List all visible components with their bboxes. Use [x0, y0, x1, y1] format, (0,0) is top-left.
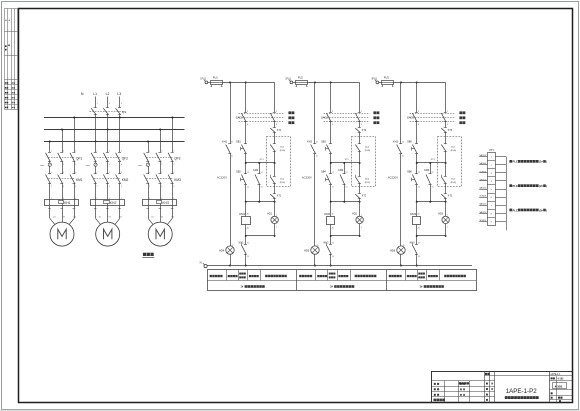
contact KH1 NC label [239, 241, 249, 258]
selector SAC1 contact a [241, 113, 247, 122]
fuse FU1 label [213, 76, 219, 80]
wire rail C3 seg2 [445, 122, 447, 128]
contact KM3 aux branch wire bottom [430, 185, 432, 202]
SAC2 position caption auto [373, 121, 379, 124]
wire rail A2 upper [314, 82, 316, 143]
control supply terminal 3 [375, 80, 379, 84]
wire feeder 3 pole 3 KM-motor [171, 183, 175, 218]
breaker QF2 label [122, 156, 128, 160]
svg-text:4-102: 4-102 [558, 378, 565, 381]
breaker QF3 label [174, 156, 180, 160]
contact KH1 aux (fault) [226, 144, 232, 154]
svg-text:2ACD4: 2ACD4 [479, 186, 487, 189]
neutral terminal N [203, 263, 207, 268]
junction line 3-3 [416, 235, 447, 237]
wire rail B3 seg2 [416, 122, 418, 144]
breaker QF2 pole 3 [116, 150, 122, 166]
svg-text:2FU1: 2FU1 [285, 78, 292, 81]
junction 3 top-B [416, 81, 418, 83]
wire rail A3 lower [400, 154, 402, 246]
wire rail C1 seg5 [274, 184, 276, 194]
terminal 7 number [491, 205, 493, 207]
selector SAC3 contact a [412, 113, 418, 122]
node N label [81, 92, 84, 96]
selector SAC2 contact a [326, 113, 332, 122]
svg-text:A1: A1 [332, 213, 334, 216]
svg-text:1: 1 [97, 172, 98, 174]
junction 2 top-A [314, 81, 316, 83]
SAC3 position caption auto [459, 121, 465, 124]
terminal 9 wire label [479, 220, 487, 222]
svg-text:5: 5 [75, 150, 76, 152]
PLC annotation group 2 [509, 184, 547, 188]
wire supply stub L2 [108, 97, 110, 108]
svg-text:A2: A2 [332, 226, 334, 229]
svg-text:14: 14 [418, 187, 420, 189]
contactor KM2 main pole 2 [103, 172, 109, 188]
wire control 3 top rail [394, 82, 446, 84]
svg-text:6: 6 [121, 164, 122, 166]
QF2 trip release [94, 163, 97, 166]
terminal 5 number [491, 189, 493, 191]
terminal 3 outgoing wire [495, 172, 506, 174]
svg-text:XT1: XT1 [489, 148, 494, 152]
svg-text:5: 5 [121, 172, 122, 174]
contactor KM2 main pole 3 [116, 172, 122, 188]
wire rail C3 seg6 [445, 199, 447, 217]
thermal relay KH2 body [91, 200, 125, 206]
junction line 2-2 [330, 201, 361, 203]
wire feeder 1 pole 1 KM-motor [48, 183, 52, 218]
junction B3-N [416, 265, 418, 267]
wire rail C2 seg6 [359, 199, 361, 217]
table group 1 caption [241, 285, 265, 288]
svg-text:KM2: KM2 [122, 178, 129, 182]
svg-text:(DLX): (DLX) [451, 182, 457, 184]
table group 3 caption [420, 285, 444, 288]
wire feeder 2 pole 3 QF-KM [119, 162, 121, 174]
lamp HD3 (run) [442, 216, 449, 223]
junction 1 top-B [245, 81, 247, 83]
svg-text:KM3: KM3 [410, 212, 416, 216]
button SB4 label [321, 171, 334, 189]
svg-text:2: 2 [149, 186, 150, 188]
node KT2 wire label [345, 159, 350, 161]
contact KM3 aux (seal-in) [426, 174, 432, 185]
node L2 label [106, 92, 110, 96]
float switch enclosure (dashed) [352, 137, 376, 187]
svg-text:3: 3 [63, 150, 64, 152]
svg-text:95: 95 [332, 242, 334, 244]
QF1 linkage (dashed) [48, 157, 75, 159]
svg-text:43: 43 [231, 245, 233, 247]
svg-text:6: 6 [173, 186, 174, 188]
float switch enclosure (dashed) [438, 137, 462, 187]
contact KM2 aux branch wire bottom [344, 185, 346, 202]
contactor KM2 label [122, 178, 129, 182]
wire feeder 1 pole 1 drop [49, 141, 51, 152]
button SB5 label [407, 140, 412, 143]
terminal 9 wire stub [479, 221, 487, 223]
terminal 3 number [491, 173, 493, 175]
wire feeder 1 pole 2 KM-motor [60, 183, 64, 218]
fuse FU3 label [384, 76, 390, 80]
svg-text:SB2: SB2 [236, 171, 241, 174]
contact KH3 aux (fault) [397, 144, 403, 154]
wire rail A3 to N [400, 254, 402, 265]
svg-text:): ) [546, 161, 547, 164]
lamp HD2 (run) [356, 216, 363, 223]
svg-text:3ACD4: 3ACD4 [479, 211, 487, 214]
wire feeder 1 converge left [50, 218, 55, 224]
svg-text:(DLS): (DLS) [365, 150, 371, 152]
junction feeder 1 pole 3 [73, 117, 75, 119]
wire rail B2 seg6 [330, 202, 332, 217]
voltage label AC220V [302, 176, 312, 180]
wire rail B1 seg2 [245, 122, 247, 144]
wire feeder 2 pole 2 QF-KM [107, 162, 109, 174]
svg-text:2: 2 [447, 227, 448, 229]
contact KT3 NO (time relay) [441, 128, 447, 133]
svg-text:): ) [546, 209, 547, 212]
contact KT2 NO label [362, 129, 367, 132]
terminal 1 outgoing wire [495, 156, 506, 158]
svg-text:PLC: PLC [513, 184, 518, 188]
table group 3 header cells [389, 273, 466, 279]
svg-text:KM2: KM2 [324, 212, 330, 216]
wire rail C1 seg4 [274, 151, 276, 176]
QF3 trip label [138, 165, 143, 167]
terminal 3 label [371, 78, 378, 81]
contact KT1 NO (time relay) [270, 128, 276, 133]
motor 3 terminal labels U V W [151, 216, 175, 218]
wire feeder 1 pole 2 QF-KM [62, 162, 64, 174]
wire feeder 3 pole 2 KM-motor [159, 183, 163, 218]
junction line 2-1 [330, 162, 361, 164]
SAC1 position caption stop [288, 116, 294, 119]
selector SAC2 contact b [355, 113, 361, 122]
QF1 trip label [40, 165, 45, 167]
wire rail B1 seg7 [245, 225, 247, 245]
svg-text:1: 1 [149, 172, 150, 174]
wire rail A1 lower [230, 154, 232, 246]
wire rail B1 seg6 [245, 202, 247, 217]
lamp HD5 label [304, 245, 318, 252]
svg-text:1ACD2: 1ACD2 [479, 154, 487, 157]
svg-text:KT1: KT1 [277, 196, 282, 198]
float switch DL1 label [280, 146, 286, 152]
float switch DL2 contact [355, 175, 361, 184]
fuse FU3 [379, 81, 394, 87]
svg-text:4: 4 [109, 164, 110, 166]
SAC3 pin labels a [418, 111, 420, 126]
svg-text:4: 4 [161, 164, 162, 166]
wire feeder 3 pole 1 drop [148, 141, 150, 152]
svg-text:3ACD2: 3ACD2 [479, 203, 487, 206]
contact KM1 aux branch wire top [259, 163, 261, 174]
wire feeder 3 pole 1 KM-motor [146, 183, 150, 218]
wire rail C2 seg5 [359, 184, 361, 194]
drawing number text [506, 388, 538, 395]
contact KH2 aux (fault) [311, 144, 317, 154]
contact KM3 aux branch wire top [430, 163, 432, 174]
motor M3 [148, 222, 172, 246]
wire rail B3 seg3 [416, 154, 418, 163]
svg-text:41: 41 [316, 156, 318, 158]
wire feeder 3 pole 3 QF-KM [172, 162, 174, 174]
QF2 linkage (dashed) [94, 157, 121, 159]
svg-text:A2: A2 [418, 226, 420, 229]
svg-text:KT3: KT3 [448, 196, 453, 198]
contact KH2 NC (overload) [326, 243, 332, 254]
contact KH2 NC label [324, 241, 334, 258]
KM3 linkage (dashed) [147, 178, 174, 180]
svg-text:1FU1: 1FU1 [200, 78, 207, 81]
title block signature cells [434, 373, 494, 401]
lamp HD6 label [390, 245, 404, 252]
svg-text:4: 4 [63, 164, 64, 166]
contactor KM3 main pole 2 [156, 172, 162, 188]
junction A3-N [400, 265, 402, 267]
button SB1 label [236, 140, 241, 143]
svg-text:6: 6 [121, 186, 122, 188]
svg-text:3: 3 [63, 172, 64, 174]
lamp HD4 label [219, 245, 233, 252]
QF3 linkage (dashed) [147, 157, 174, 159]
wire rail C1 seg1 [274, 82, 276, 112]
wire rail B2 to N [330, 254, 332, 265]
svg-text:N: N [81, 92, 84, 96]
control supply terminal 2 [289, 80, 293, 84]
svg-text:1: 1 [276, 214, 277, 216]
wire rail B3 seg5 [416, 185, 418, 202]
lamp HD6 (fault) [397, 246, 405, 254]
svg-text:95: 95 [247, 242, 249, 244]
svg-text:1: 1 [447, 214, 448, 216]
svg-text:95: 95 [418, 242, 420, 244]
junction 1 top-A [229, 81, 231, 83]
voltage label AC220V [388, 176, 398, 180]
QS linkage (dashed) [90, 111, 124, 113]
terminal block outgoing bus [506, 157, 508, 231]
wire rail A1 to N [230, 254, 232, 265]
svg-text:5: 5 [121, 103, 122, 105]
wire rail C2 seg3 [359, 132, 361, 144]
SAC1 position caption manual [288, 111, 294, 114]
svg-text:4: 4 [161, 186, 162, 188]
breaker QF3 pole 1 [144, 150, 150, 166]
coil KM3 [413, 217, 421, 225]
button SB4 start (NO) [326, 174, 332, 185]
wire rail B2 seg7 [330, 225, 332, 245]
wire L2 drop to middle bus [107, 114, 109, 129]
wire feeder 1 pole 3 KM-motor [73, 183, 77, 218]
wire rail A2 lower [314, 154, 316, 246]
wire supply stub L1 [96, 97, 98, 108]
selector SAC2 label [321, 116, 328, 120]
svg-text:5: 5 [173, 150, 174, 152]
float switch DL1 contact [441, 144, 447, 152]
wire feeder 1 pole 2 drop [62, 130, 64, 153]
thermal relay KH1 label [64, 201, 71, 205]
svg-text:45: 45 [316, 142, 318, 144]
svg-text:54: 54 [432, 187, 434, 189]
PLC annotation group 1 [509, 160, 547, 164]
selector SAC3 label [407, 116, 414, 120]
svg-text:KH1: KH1 [239, 241, 244, 244]
svg-text:(1#: (1# [539, 161, 543, 164]
KH3 aux label [393, 140, 404, 157]
svg-text:KM1: KM1 [76, 178, 83, 182]
selector SAC1 label [236, 116, 243, 120]
wire rail A2 to N [314, 254, 316, 265]
svg-text:(3#: (3# [539, 209, 543, 212]
svg-text:(DLX): (DLX) [280, 182, 286, 184]
svg-text:13: 13 [247, 172, 249, 174]
contact KT3 NO label [448, 129, 453, 132]
svg-text:KM2: KM2 [338, 169, 344, 172]
terminal 2 label [285, 78, 292, 81]
neutral wire N [207, 265, 472, 267]
wire rail C1 seg3 [274, 132, 276, 144]
motor M2 [96, 222, 120, 246]
button SB1 stop (NC) [241, 144, 247, 154]
svg-text:96: 96 [332, 256, 334, 258]
contact KM2 aux branch wire top [344, 163, 346, 174]
phase bus L3 (top) [44, 117, 185, 119]
wire feeder 2 pole 2 KM-motor [106, 183, 110, 218]
svg-text:KM3: KM3 [424, 169, 430, 172]
wire rail B1 seg4 [245, 163, 247, 174]
svg-text:KT3: KT3 [448, 129, 453, 132]
KM2 aux label [338, 169, 347, 189]
svg-text:3CKD1: 3CKD1 [479, 220, 487, 222]
contactor KM1 label [76, 178, 83, 182]
fuse FU2 label [298, 76, 304, 80]
wire feeder 2 pole 3 KM-motor [118, 183, 122, 218]
svg-text:96: 96 [418, 256, 420, 258]
wire rail B3 seg6 [416, 202, 418, 217]
button SB3 label [321, 140, 326, 143]
breaker QF1 label [76, 156, 82, 160]
svg-text:45: 45 [402, 142, 404, 144]
junction feeder 1 pole 2 [61, 129, 63, 131]
wire control 2 top rail [308, 82, 360, 84]
svg-text:3: 3 [109, 103, 110, 105]
coil KM1 [242, 217, 251, 225]
svg-text:1APE-1-P2: 1APE-1-P2 [506, 388, 538, 395]
terminal 6 outgoing wire [495, 197, 506, 199]
float switch enclosure (dashed) [267, 137, 291, 187]
wire rail B1 to N [245, 254, 247, 265]
svg-text:53: 53 [346, 172, 348, 174]
node KT3 wire label [431, 159, 436, 161]
svg-text:KT2: KT2 [362, 196, 367, 198]
svg-text:AC220V: AC220V [302, 176, 312, 180]
breaker QF3 pole 2 [156, 150, 162, 166]
svg-text:KM3: KM3 [174, 178, 181, 182]
junction line 1-1 [245, 162, 276, 164]
svg-text:SB6: SB6 [407, 171, 412, 174]
breaker QF1 pole 2 [58, 150, 64, 166]
svg-text:PLC: PLC [513, 160, 518, 164]
junction B1-N [245, 265, 247, 267]
svg-text:L1: L1 [93, 92, 97, 96]
wire feeder 1 pole 1 QF-KM [49, 162, 51, 174]
button SB5 stop (NC) [412, 144, 418, 154]
svg-text:SB5: SB5 [407, 140, 412, 143]
drawing title caption [505, 396, 539, 399]
wire rail B3 to N [416, 254, 418, 265]
wire feeder 2 pole 1 QF-KM [95, 162, 97, 174]
svg-text:53: 53 [261, 172, 263, 174]
svg-text:53: 53 [432, 172, 434, 174]
contact KT3 delay [441, 194, 447, 199]
KM1 aux label [253, 169, 262, 189]
svg-text:(DLS): (DLS) [451, 150, 457, 152]
wire rail B2 seg4 [330, 163, 332, 174]
bottom sheet edge shadow [0, 410, 580, 411]
terminal 1 wire label [479, 154, 487, 157]
svg-text:(2#: (2# [539, 185, 543, 188]
svg-text:L2: L2 [106, 92, 110, 96]
selector SAC1 contact b [270, 113, 276, 122]
wire control 1 top rail [223, 82, 275, 84]
breaker QF3 pole 3 [168, 150, 174, 166]
wire rail A3 upper [400, 82, 402, 143]
KH1 aux label [222, 140, 233, 157]
button SB3 stop (NC) [326, 144, 332, 154]
svg-text:2ACD2: 2ACD2 [479, 178, 487, 181]
terminal 6 wire label [479, 196, 487, 198]
svg-text:FU1: FU1 [213, 76, 219, 80]
SAC3 position caption manual [459, 111, 465, 114]
wire feeder 2 pole 1 KM-motor [94, 183, 98, 218]
terminal 2 outgoing wire [495, 164, 506, 166]
wire L3 drop to top bus [119, 114, 121, 117]
contactor KM3 main pole 3 [168, 172, 174, 188]
wire feeder 3 pole 1 QF-KM [148, 162, 150, 174]
QF2 trip label [86, 165, 91, 167]
main circuit caption [142, 253, 154, 258]
terminal 2 number [491, 165, 493, 167]
contact KT1 delay label [277, 196, 282, 198]
svg-text:KH2: KH2 [307, 140, 312, 143]
wire rail B2 seg1 [330, 82, 332, 112]
svg-text:SB3: SB3 [321, 140, 326, 143]
junction line 2-3 [330, 235, 361, 237]
wire rail C3 seg5 [445, 184, 447, 194]
KM2 linkage (dashed) [94, 178, 121, 180]
wire rail B3 seg1 [416, 82, 418, 112]
coil KM3 label [410, 212, 420, 230]
junction L3-bus [119, 117, 121, 119]
svg-text:KH1: KH1 [222, 140, 227, 143]
table group 2 header cells [299, 273, 376, 279]
svg-text:KT1: KT1 [277, 129, 282, 132]
svg-text:3: 3 [161, 172, 162, 174]
junction feeder 1 pole 1 [49, 140, 51, 142]
svg-text:HD3: HD3 [438, 213, 443, 216]
svg-text:6: 6 [75, 164, 76, 166]
lamp HD4 (fault) [226, 246, 234, 254]
terminal 9 outgoing wire [495, 221, 506, 223]
svg-text:1: 1 [97, 103, 98, 105]
float switch DL2 label [451, 179, 457, 185]
junction line 3-2 [416, 201, 447, 203]
svg-text:4-302: 4-302 [555, 384, 563, 388]
terminal 4 outgoing wire [495, 180, 506, 182]
